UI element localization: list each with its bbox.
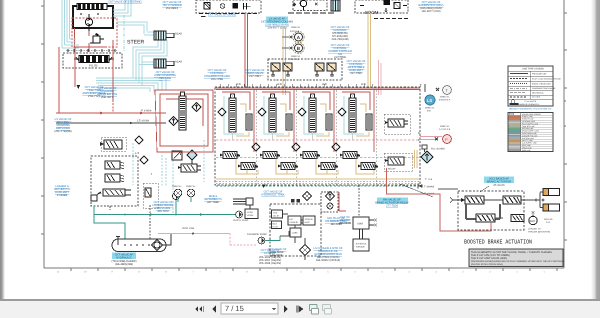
- wire tan steering column risers: [283, 28, 286, 95]
- valve section 3 check: [298, 108, 306, 116]
- label blue hopper outlet note: [246, 69, 265, 78]
- brake top line: [452, 199, 540, 201]
- svg-text:LOAD: LOAD: [247, 211, 253, 214]
- svg-text:PIL 05: PIL 05: [89, 64, 98, 68]
- wire teal return bus: [94, 206, 237, 215]
- svg-text:PILOT / LOAD SENSING RTN LINE: PILOT / LOAD SENSING RTN LINE: [532, 78, 562, 81]
- color code legend table: [508, 113, 553, 152]
- lower anti-void diamond 1: [252, 143, 260, 151]
- pressure gauge circle red: [443, 135, 452, 144]
- wire cyan feeder dashed: [203, 140, 205, 182]
- svg-text:(AB-4BD)(24B): (AB-4BD)(24B): [115, 263, 133, 266]
- svg-text:OIL BT: OIL BT: [273, 215, 280, 218]
- wire tan bank right drop: [415, 150, 418, 168]
- lower row tan loop 3: [316, 159, 338, 175]
- svg-text:REAR: REAR: [175, 33, 182, 36]
- svg-text:A-C BT A-B: A-C BT A-B: [439, 128, 451, 131]
- lower row tan loop 2: [276, 159, 298, 175]
- frame tick marks bottom: [71, 268, 557, 271]
- drawing frame bottom border: [44, 267, 564, 269]
- svg-text:P: P: [445, 137, 448, 142]
- svg-text:LUBE: LUBE: [292, 232, 298, 235]
- svg-text:LEVEL: LEVEL: [247, 214, 255, 217]
- svg-text:254-8Y77 (24B): 254-8Y77 (24B): [268, 27, 287, 30]
- level system box: [245, 209, 258, 219]
- notes box gray: [469, 249, 563, 267]
- label blue mode select note: [204, 195, 222, 204]
- connector circle A: [293, 31, 304, 42]
- reducing valve 1: [105, 161, 124, 169]
- svg-text:JOYSTICK: JOYSTICK: [356, 243, 367, 246]
- svg-text:2AY-7BB5: 2AY-7BB5: [207, 201, 220, 204]
- lower anti-void diamond 3: [332, 143, 340, 151]
- brake line to cylinders: [535, 199, 545, 202]
- wire teal riser to charge pump: [175, 200, 177, 215]
- valve section 1 wires: [222, 92, 250, 140]
- label blue right of boom note: [419, 1, 444, 13]
- svg-text:2T7-TB28: 2T7-TB28: [386, 205, 398, 208]
- pilot shutoff valve: [103, 189, 131, 196]
- svg-text:2T-XX-06: 2T-XX-06: [493, 184, 505, 187]
- label blue top edge note: [108, 1, 141, 4]
- svg-text:LINE TYPE LEGEND: LINE TYPE LEGEND: [522, 68, 544, 71]
- svg-text:SWB LVL: SWB LVL: [440, 96, 450, 99]
- port arrow bank bottom: [262, 185, 266, 189]
- wire LS steer dark: [56, 122, 166, 124]
- brake valve 2: [503, 196, 521, 204]
- tank gauge circle: [443, 86, 452, 95]
- bank bottom dashed rail: [216, 182, 420, 184]
- wire red pump risers: [75, 40, 113, 100]
- wire teal drop to accumulator: [94, 215, 125, 240]
- svg-text:A B: A B: [236, 82, 241, 86]
- wire cyan box top links: [113, 0, 131, 16]
- inlet check diamond 2: [169, 117, 178, 126]
- svg-text:B-B BT B-A: B-B BT B-A: [439, 99, 451, 102]
- svg-text:LS: LS: [427, 98, 432, 103]
- connector x marks: [282, 37, 289, 48]
- svg-text:CALIBDOE PUMP: CALIBDOE PUMP: [247, 233, 267, 236]
- tank inner box filter screen: [288, 216, 301, 225]
- svg-text:2T-B2B4: 2T-B2B4: [57, 194, 68, 197]
- valve section 2 check: [258, 108, 266, 116]
- label blue boom circuit note column: [328, 26, 352, 59]
- leader line to RM label: [400, 184, 433, 197]
- valve section 2 spool: [269, 94, 276, 132]
- wire tan bank bottom rail: [216, 178, 420, 180]
- wire pink vent line: [158, 233, 230, 235]
- fill guard diamond teal: [421, 151, 433, 163]
- valve section 2 wires: [262, 92, 290, 140]
- relief anti-void valve: [385, 157, 404, 171]
- brake cylinder 1: [540, 189, 560, 196]
- brake charge valve: [178, 164, 201, 172]
- inlet compensator spool: [179, 92, 186, 130]
- toolbar first-page button: [196, 306, 204, 312]
- pilot valve pair 2: [315, 63, 336, 77]
- svg-text:21B-7B9(24B): 21B-7B9(24B): [331, 38, 348, 41]
- wire red bank supply rail: [216, 88, 420, 90]
- label blue control adjustable note: [347, 60, 366, 75]
- svg-text:205-7972: 205-7972: [157, 210, 169, 213]
- svg-text:VENT LINE: VENT LINE: [182, 227, 195, 230]
- relief anti-void valve dashed box: [384, 153, 412, 171]
- top diamond strainer 2 dashed box: [321, 192, 338, 212]
- svg-text:A B: A B: [322, 82, 327, 86]
- wire red to brake actuation: [387, 168, 492, 231]
- node dots steering box: [80, 13, 99, 15]
- wire pink vent dashed to pump: [230, 234, 256, 246]
- valve section 4 comp: [366, 114, 372, 130]
- toolbar page input box: [221, 303, 278, 314]
- relief cartridge symbol: [90, 33, 104, 43]
- small teal dashed box top: [152, 31, 153, 32]
- label blue tank note left: [268, 248, 287, 257]
- tank inner box torque limit: [303, 216, 315, 225]
- label blue brake pilot highlighted: [377, 198, 408, 204]
- lower row tan loop 4: [356, 159, 374, 175]
- wire red steering supply vertical: [74, 28, 76, 47]
- valve section 3 comp: [326, 114, 332, 130]
- viewer left edge strip: [0, 0, 5, 300]
- svg-text:7 / 15: 7 / 15: [225, 304, 244, 313]
- steering unit enclosure: [73, 6, 113, 28]
- wire red bank lower rail: [216, 157, 420, 159]
- lower row valve a2: [260, 152, 280, 159]
- svg-text:HYD: HYD: [273, 212, 278, 215]
- wire tan boom risers: [368, 13, 371, 88]
- hand pump symbol: [91, 192, 102, 202]
- supply pump circle: [236, 211, 243, 218]
- wire green bank bottom dashed rail: [216, 185, 420, 187]
- section 5 small valve: [385, 119, 408, 127]
- svg-text:B-B: B-B: [427, 110, 431, 113]
- wire red steering link: [75, 31, 108, 52]
- svg-text:A B: A B: [361, 82, 366, 86]
- tank inner box max flow: [272, 221, 282, 229]
- mxr x ports: [369, 219, 377, 227]
- svg-text:2B5-0B9B: 2B5-0B9B: [339, 222, 351, 225]
- svg-text:BOOSTED BRAKE ACTUATION: BOOSTED BRAKE ACTUATION: [464, 239, 532, 246]
- svg-text:LOADED TO: LOADED TO: [528, 228, 541, 231]
- svg-text:MISC LINE: MISC LINE: [522, 149, 531, 152]
- svg-text:217-70B7: 217-70B7: [249, 75, 261, 78]
- brake small valve right: [511, 215, 524, 222]
- brake valve 1: [461, 196, 484, 204]
- valve bank enclosure dashed: [215, 87, 420, 185]
- svg-text:L.S: L.S: [135, 151, 139, 155]
- check diamond upper: [135, 136, 143, 144]
- svg-text:225-7Y8B: 225-7Y8B: [211, 78, 223, 81]
- svg-text:FL BT: FL BT: [273, 226, 279, 229]
- svg-text:217-7099: 217-7099: [350, 72, 362, 75]
- lower row valve b3: [318, 163, 338, 170]
- lower row valve b1: [238, 163, 258, 170]
- svg-text:(PLETED STOEL CPECH DIAS): (PLETED STOEL CPECH DIAS): [471, 263, 503, 266]
- svg-text:SWB LVL: SWB LVL: [186, 185, 196, 188]
- solenoid valve small: [172, 151, 182, 160]
- svg-text:CKT LINK: CKT LINK: [532, 96, 541, 99]
- top diamond strainer 1: [303, 192, 312, 201]
- wire cyan left connect: [62, 39, 79, 48]
- svg-text:225-7J8B: 225-7J8B: [159, 77, 171, 80]
- svg-text:CKT VALVE OF (MAIN): CKT VALVE OF (MAIN): [208, 14, 236, 17]
- svg-text:PRESSURE LINE: PRESSURE LINE: [532, 73, 547, 76]
- valve section 2 comp: [286, 114, 292, 130]
- steering control spool (black): [74, 4, 110, 10]
- valve section 4 spool: [349, 94, 356, 132]
- wire cyan dashed feeder left: [162, 155, 166, 186]
- check diamond lower cyan: [187, 150, 197, 160]
- line type legend table: [508, 66, 562, 106]
- toolbar snapshot icon 2 disabled: [323, 305, 332, 315]
- label blue left margin note 1: [54, 118, 71, 133]
- lower row valve b4: [358, 163, 378, 170]
- tank inner box lube: [290, 228, 301, 237]
- valve section 1 comp: [246, 114, 252, 130]
- steering pilot spool (black): [74, 56, 114, 63]
- wire cyan steer bundle to cylinders: [117, 22, 155, 35]
- svg-text:THE P LST LPBT SOLVE (JEM): THE P LST LPBT SOLVE (JEM): [471, 257, 507, 260]
- svg-text:MECHANICAL: MECHANICAL: [532, 91, 544, 94]
- svg-text:PRESSURES AS MEASURED BELOW FU: PRESSURES AS MEASURED BELOW FULLY WARMED…: [471, 260, 565, 263]
- label blue pilot oil note: [325, 217, 347, 226]
- breather symbol: [233, 198, 253, 214]
- accumulator capsule: [112, 234, 171, 252]
- dashed riser to mxr: [358, 185, 360, 217]
- valve section 1 spool: [229, 94, 236, 132]
- svg-text:SWB LVL: SWB LVL: [291, 26, 301, 29]
- lower row valve a4: [340, 152, 360, 159]
- svg-text:SWB LVL: SWB LVL: [291, 55, 301, 58]
- svg-text:SWB LVL: SWB LVL: [172, 185, 182, 188]
- frame zone numbers bottom: [57, 271, 546, 274]
- svg-text:184-50802 (230614): 184-50802 (230614): [316, 259, 340, 262]
- svg-text:COMPONENT ENCLOSURE: COMPONENT ENCLOSURE: [532, 87, 556, 90]
- label blue traction note: [82, 86, 105, 98]
- label blue left margin note 2: [54, 185, 70, 197]
- label blue steering column ctrl note: [204, 69, 230, 81]
- inlet feeder red nested rects: [155, 90, 213, 152]
- lower row tan loop 1: [236, 159, 258, 175]
- svg-text:SWB LVL: SWB LVL: [440, 125, 450, 128]
- wire dark drop dashed: [110, 205, 150, 240]
- lower row valve a3: [300, 152, 320, 159]
- svg-text:P: P: [418, 131, 420, 135]
- red pilot dashed box: [72, 18, 117, 47]
- steering cylinder rear 2: [154, 59, 182, 68]
- wire cyan big sweep to valve bank: [96, 78, 166, 92]
- svg-text:P: P: [418, 138, 420, 142]
- svg-text:STEER: STEER: [127, 40, 145, 46]
- pilot manifold box top: [288, 0, 334, 13]
- toolbar last-page button: [297, 306, 304, 313]
- teal bus node dots: [124, 214, 126, 216]
- label blue brake actuator highlighted: [484, 177, 514, 184]
- mid pilot valves dashed box: [268, 59, 342, 80]
- tank connect wires: [283, 214, 304, 243]
- section 5 small valve dashed box: [384, 114, 410, 134]
- valve section 3 wires: [302, 92, 330, 140]
- viewer right edge strip: [591, 0, 600, 300]
- svg-text:MXR: MXR: [358, 223, 364, 226]
- brake valve lower: [476, 214, 503, 222]
- svg-text:HYDRAULIC TANK: HYDRAULIC TANK: [261, 194, 284, 197]
- svg-text:217-709B: 217-709B: [334, 56, 346, 59]
- node arrow down: [77, 85, 81, 89]
- label blue brake pressure note: [153, 201, 174, 213]
- joystick link: [360, 229, 363, 239]
- wire P steer red: [56, 47, 166, 113]
- connector circle B: [293, 42, 304, 53]
- wire pink pressure to gauge: [420, 137, 442, 140]
- strainer circle below: [327, 203, 333, 209]
- brake dashed enclosure: [458, 191, 524, 230]
- label blue steering cylinder note: [154, 71, 176, 80]
- drawing frame left border: [43, 0, 45, 268]
- svg-text:25B-7BT7: 25B-7BT7: [101, 96, 114, 99]
- bank top port ticks: [220, 84, 372, 87]
- svg-text:SCRN BT: SCRN BT: [290, 221, 300, 224]
- label blue tank top note: [261, 191, 284, 197]
- wire teal pump out: [265, 236, 280, 241]
- lower row valve a1: [220, 152, 240, 159]
- pilot valve pair 1: [271, 63, 292, 77]
- toolbar input dropdown caret: [272, 308, 276, 311]
- teal bus arrows: [150, 213, 204, 216]
- frame tick marks left: [41, 6, 44, 234]
- steering pilot valve dashed box: [63, 53, 122, 68]
- wire red section edges: [254, 90, 374, 152]
- calibrate pump circle: [258, 237, 265, 244]
- joystick torque box: [353, 239, 369, 251]
- labels A B row: [236, 82, 366, 86]
- tank inner box hyd oil: [272, 210, 283, 218]
- label blue mxr note: [339, 216, 351, 225]
- svg-text:THE TELEHANDLER SCHEMATICS: THE TELEHANDLER SCHEMATICS: [510, 103, 540, 106]
- valve section 4 check: [338, 108, 346, 116]
- svg-text:CKT VALVE OF STEERING: CKT VALVE OF STEERING: [108, 1, 141, 4]
- wire diamond drop: [191, 160, 193, 164]
- valve section 1 check: [218, 108, 226, 116]
- wire red tank right: [339, 192, 346, 211]
- brake cylinder 2: [540, 204, 560, 211]
- wire dark spare to brake: [438, 188, 458, 190]
- svg-text:BOOM: BOOM: [365, 10, 379, 15]
- lower anti-void diamond 2: [292, 143, 300, 151]
- svg-text:LIMIT: LIMIT: [305, 221, 311, 224]
- svg-text:AVC: AVC: [530, 219, 536, 223]
- svg-text:BRAKE / DRAIN LINES: BRAKE / DRAIN LINES: [532, 83, 552, 86]
- mxr box: [353, 217, 369, 229]
- svg-text:A+C: A+C: [546, 221, 551, 224]
- svg-text:AIR LSD: AIR LSD: [544, 218, 553, 221]
- page bottom edge line: [0, 299, 600, 301]
- svg-text:FILL GUARD: FILL GUARD: [431, 148, 445, 151]
- label blue steering ckt note: [97, 87, 117, 99]
- label blue tilt note: [162, 1, 182, 10]
- brake leader line: [480, 186, 489, 192]
- svg-text:TORQUE: TORQUE: [356, 246, 366, 249]
- toolbar prev-page button: [212, 306, 216, 313]
- svg-text:T: T: [151, 172, 153, 176]
- avc circle: [529, 216, 537, 224]
- label blue accumulator highlighted: [112, 253, 136, 260]
- gerotor meter circle: [85, 18, 92, 25]
- valve section 4 wires: [342, 92, 370, 140]
- valve section 3 spool: [309, 94, 316, 132]
- svg-text:252-9BXX: 252-9BXX: [166, 7, 178, 10]
- wire cyan left risers: [62, 0, 70, 48]
- tank filter diamond: [300, 245, 311, 256]
- port marks row: [66, 50, 117, 52]
- boom cylinder hatched: [331, 0, 340, 11]
- toolbar next-page button: [284, 306, 288, 313]
- check diamond upper small: [140, 156, 148, 164]
- drawing frame right border: [563, 0, 565, 268]
- bank section dividers: [256, 87, 376, 185]
- svg-text:(25L-Y7B)(9B): (25L-Y7B)(9B): [54, 130, 71, 133]
- svg-text:TORQUE: TORQUE: [305, 218, 314, 221]
- inlet check diamond 1: [192, 103, 201, 112]
- label blue ls steering column note highlighted: [266, 17, 288, 23]
- small cartridge box: [143, 183, 158, 208]
- reducing valve 2: [105, 174, 124, 182]
- drag link squares: [291, 199, 295, 203]
- toolbar snapshot icon 1: [310, 305, 319, 315]
- hydraulic tank dashed box: [270, 204, 321, 256]
- svg-text:REAR: REAR: [175, 61, 182, 64]
- wire pink aux risers: [379, 60, 382, 95]
- svg-text:TRAILER (BOOSTER): TRAILER (BOOSTER): [528, 231, 550, 234]
- bank gauge ports: [172, 185, 196, 202]
- tilt pilot valve box: [196, 0, 261, 17]
- avc x mark: [532, 211, 535, 216]
- toolbar background: [0, 301, 600, 318]
- svg-text:1BB-BB77 SCHEMATIC HYD SYSTEM: 1BB-BB77 SCHEMATIC HYD SYSTEM 2T4: [509, 107, 553, 110]
- svg-text:A B: A B: [277, 82, 282, 86]
- pilot supply dashed box: [91, 156, 138, 206]
- priority valve: [100, 137, 126, 151]
- svg-text:RELIEF: RELIEF: [388, 168, 396, 171]
- frame tick marks right: [564, 13, 567, 240]
- steering cylinder rear 1: [154, 31, 182, 40]
- test coupler symbol: [422, 145, 427, 152]
- wire red tilt risers: [245, 13, 248, 88]
- svg-text:17mm 4B4TB: 17mm 4B4TB: [524, 100, 537, 103]
- svg-text:SWB LVL: SWB LVL: [425, 107, 435, 110]
- svg-text:2B-0B98: 2B-0B98: [272, 254, 283, 257]
- wire pink bank mid rail dashed: [216, 139, 420, 141]
- LS pump circle teal: [425, 95, 435, 105]
- svg-text:186-8477 (23/8): 186-8477 (23/8): [421, 10, 440, 13]
- ls dashed cyan riser: [133, 143, 173, 214]
- svg-text:B-BT B-B: B-BT B-B: [290, 30, 300, 33]
- label blue ls cooler note: [314, 247, 343, 262]
- svg-text:206-1098 (HepPa): 206-1098 (HepPa): [259, 262, 281, 265]
- lower row valve b2: [278, 163, 298, 170]
- svg-text:SUPPLY PUMP: SUPPLY PUMP: [233, 219, 249, 222]
- svg-text:MAX: MAX: [273, 223, 278, 226]
- svg-text:B-BT B-B: B-BT B-B: [290, 58, 300, 61]
- label blue pump note: [259, 249, 281, 265]
- brake thick link u-shape: [466, 204, 500, 219]
- boom pilot valve box: [355, 0, 408, 19]
- charge pump circle: [173, 193, 180, 200]
